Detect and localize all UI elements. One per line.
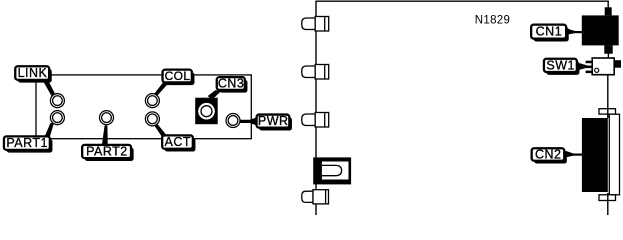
svg-text:N1829: N1829 (475, 14, 510, 26)
svg-text:PART2: PART2 (86, 144, 128, 158)
svg-text:LINK: LINK (18, 66, 48, 80)
LED COL (145, 94, 159, 108)
connector CN1 bottom tab (604, 45, 612, 53)
leader COL to LED (154, 83, 169, 97)
label ACT (162, 135, 195, 152)
connector CN3 black square (195, 98, 218, 125)
wire bracket line CN1 to SW1 (607, 52, 609, 59)
connector CN1 top tab (605, 7, 612, 15)
svg-text:ACT: ACT (165, 135, 192, 149)
label PWR (257, 114, 292, 130)
switch SW1 actuator circle (595, 68, 599, 72)
LED LINK (50, 94, 64, 108)
LED bullet 3 on PCB edge (302, 113, 329, 128)
wire bracket line through CN2 top flange (607, 108, 609, 118)
label COL (163, 69, 195, 85)
leader PWR to LED (240, 117, 257, 125)
LED PART1 (50, 111, 64, 125)
LED ACT (145, 112, 159, 126)
wire bracket line below CN2 (607, 193, 609, 215)
label CN2 (532, 147, 567, 163)
leader ACT to LED (155, 124, 168, 138)
leader CN1 to connector (566, 28, 583, 35)
label CN1 (531, 24, 569, 41)
connector CN2 face plate (609, 114, 619, 195)
connector jack black box on PCB edge (313, 157, 351, 184)
wire PCB left edge (315, 1, 317, 215)
svg-text:COL: COL (165, 69, 191, 83)
leader PART1 to LED (44, 123, 54, 138)
LED bullet 5 on PCB edge (302, 190, 329, 204)
LED PWR (226, 114, 240, 128)
svg-text:CN1: CN1 (536, 24, 563, 38)
wire PCB top edge (316, 0, 609, 2)
leader CN3 to square (208, 90, 222, 100)
label CN3 (217, 76, 248, 92)
svg-text:SW1: SW1 (546, 58, 575, 72)
label LINK (15, 66, 52, 83)
LED bullet 2 on PCB edge (302, 65, 329, 80)
leader LINK to LED (43, 80, 56, 96)
LED PART2 (100, 111, 114, 125)
connector CN2 top flange (599, 109, 616, 114)
LED cluster outline rectangle (36, 75, 251, 139)
svg-text:PART1: PART1 (6, 136, 48, 150)
label PART2 (82, 144, 133, 161)
leader SW1 to switch (578, 61, 593, 73)
switch SW1 body (592, 58, 614, 75)
wire bracket line through CN2 bottom flange (607, 195, 609, 201)
connector CN1 body (582, 15, 619, 45)
leader CN2 to connector (565, 151, 583, 158)
svg-text:CN2: CN2 (535, 147, 562, 161)
switch SW1 side tab (614, 60, 621, 67)
connector CN2 body (582, 118, 608, 192)
svg-text:PWR: PWR (258, 114, 289, 128)
LED bullet 1 on PCB edge (302, 17, 329, 32)
svg-text:CN3: CN3 (218, 76, 245, 90)
wire bracket line SW1 to CN2 (607, 74, 609, 118)
label SW1 (544, 58, 580, 75)
connector CN2 bottom flange (599, 195, 616, 201)
leader PART2 to LED (102, 125, 108, 145)
label PART1 (4, 136, 53, 153)
wire PCB right edge top segment (607, 1, 609, 9)
